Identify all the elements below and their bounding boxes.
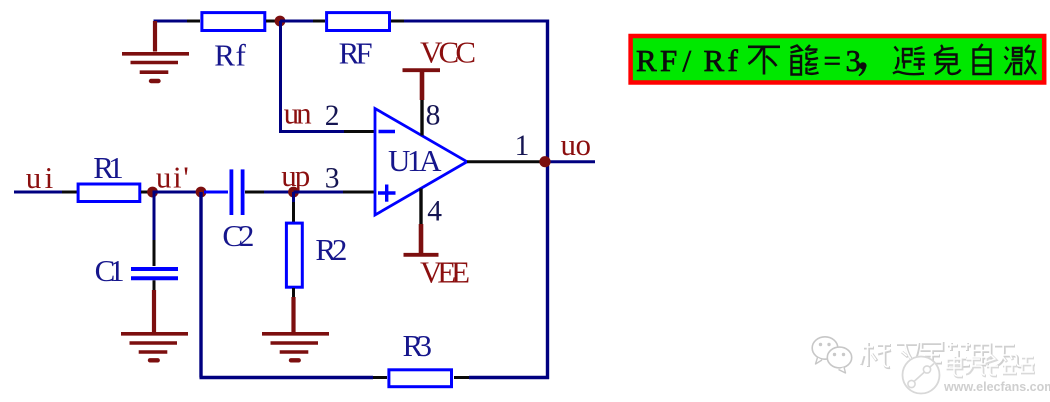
node ui'	[147, 187, 158, 198]
pin number 2	[325, 100, 340, 132]
wire R3 to right vertical	[454, 376, 549, 379]
svg-text:C1: C1	[95, 253, 125, 288]
svg-text:2: 2	[325, 100, 340, 132]
label R2	[315, 232, 347, 267]
label Rf	[214, 37, 246, 72]
net label un	[284, 95, 313, 130]
watermark elecfans logo circle	[903, 357, 940, 394]
resistor R2	[286, 192, 302, 297]
node feedback junction	[196, 187, 207, 198]
label C1	[95, 253, 125, 288]
resistor Rf	[202, 13, 265, 31]
net label ui	[26, 160, 54, 195]
svg-text:Rf: Rf	[214, 37, 246, 72]
wire un horizontal to pin 2	[279, 130, 374, 133]
svg-text:1: 1	[515, 130, 530, 162]
svg-text:un: un	[284, 95, 313, 130]
wire junction to RF	[280, 20, 325, 23]
svg-text:up: up	[281, 158, 310, 193]
wire top net from ground to Rf	[154, 20, 201, 23]
capacitor C1	[131, 192, 178, 290]
svg-text:C2: C2	[222, 218, 254, 253]
wire RF to right vertical	[391, 20, 548, 23]
label U1A	[388, 143, 442, 178]
annotation banner box	[631, 36, 1045, 83]
ground G2 under C1	[121, 290, 188, 360]
svg-text:3: 3	[325, 163, 340, 195]
wire ui' to node 2	[153, 191, 202, 194]
wire Rf right lead	[266, 20, 280, 23]
pin number 1	[515, 130, 530, 162]
label R3	[403, 328, 433, 363]
svg-text:uo: uo	[561, 127, 592, 162]
capacitor C2	[204, 169, 243, 215]
node uo junction	[539, 156, 550, 167]
svg-text:R3: R3	[403, 328, 433, 363]
wire C2 to node up	[245, 191, 294, 194]
label VCC	[420, 35, 476, 70]
resistor RF	[327, 13, 390, 31]
op-amp plus input mark	[378, 185, 396, 202]
wire un vertical from junction	[279, 21, 282, 132]
label C2	[222, 218, 254, 253]
svg-text:www.elecfans.com: www.elecfans.com	[943, 380, 1050, 394]
watermark ghost text 电子发烧友 approximation	[948, 356, 1035, 377]
svg-text:R2: R2	[315, 232, 347, 267]
label VEE	[420, 254, 470, 289]
wire output pin 1	[467, 160, 595, 163]
watermark wechat icon	[812, 337, 852, 373]
op-amp minus input mark	[379, 130, 396, 133]
svg-text:4: 4	[427, 196, 442, 228]
svg-text:RF/Rf: RF/Rf	[636, 43, 739, 78]
power VEE pin 4	[404, 189, 439, 255]
net label ui'	[156, 159, 189, 194]
wire right vertical x=547	[546, 20, 549, 380]
svg-text:R1: R1	[93, 150, 124, 185]
label R1	[93, 150, 124, 185]
annotation glyph 避	[893, 47, 925, 75]
ground G3 under R2	[262, 297, 329, 360]
node junction Rf/RF	[275, 16, 286, 27]
watermark text 张飞实战电子 approximation	[862, 343, 1024, 368]
svg-text:ui: ui	[26, 160, 54, 195]
svg-text:VCC: VCC	[420, 35, 476, 70]
watermark url	[943, 380, 1050, 394]
wire up to pin 3	[294, 191, 375, 194]
pin number 3	[325, 163, 340, 195]
svg-text:VEE: VEE	[420, 254, 470, 289]
resistor R1	[78, 184, 140, 202]
annotation glyph 免	[934, 45, 961, 74]
svg-text:8: 8	[426, 100, 441, 132]
wire R1 to node ui'	[141, 191, 152, 194]
svg-text:U1A: U1A	[388, 143, 442, 178]
label RF	[339, 35, 373, 70]
pin number 4	[427, 196, 442, 228]
annotation glyph 自	[974, 44, 991, 74]
op-amp U1 triangle	[375, 109, 467, 216]
node up	[288, 187, 299, 198]
svg-text:ui': ui'	[156, 159, 189, 194]
wire feedback vertical x=201	[199, 192, 202, 378]
svg-text:RF: RF	[339, 35, 373, 70]
net label uo	[561, 127, 592, 162]
resistor R3	[389, 370, 452, 387]
annotation fullwidth comma	[858, 62, 866, 76]
annotation glyph 不	[748, 47, 780, 75]
net label up	[281, 158, 310, 193]
wire bottom to R3	[200, 376, 388, 379]
annotation text RF/Rf	[636, 43, 861, 78]
pin number 8	[426, 100, 441, 132]
ground G1 top-left	[122, 21, 189, 81]
power VCC pin 8	[403, 70, 441, 135]
annotation glyph 激	[1005, 45, 1037, 74]
annotation glyph 能	[791, 45, 819, 75]
wire ui input	[14, 191, 77, 194]
